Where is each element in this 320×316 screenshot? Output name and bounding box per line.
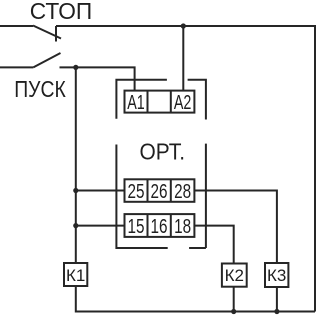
wire: left feed to ПУСК contact (0, 66, 33, 68)
wire: lead down to terminal A2 (182, 26, 184, 91)
wire: vertical branch down to К1 coil (75, 67, 77, 263)
switch СТОП stop bar (55, 26, 57, 42)
wire: ПУСК output to terminal A1 (60, 67, 135, 90)
node: junction of A2 branch on top rail (181, 23, 186, 28)
terminal row A1/A2 of relay ОРТ (125, 91, 195, 114)
svg-text:15: 15 (128, 216, 145, 238)
svg-text:К1: К1 (66, 266, 85, 285)
wire: right rail (314, 25, 316, 312)
node: junction of terminal 15 wire (73, 223, 78, 228)
wire: terminal 15 to К1 branch (76, 225, 125, 227)
svg-text:К2: К2 (225, 266, 244, 285)
svg-text:ПУСК: ПУСК (14, 76, 66, 102)
svg-text:К3: К3 (267, 266, 286, 285)
wire: terminal 25 to К1 branch (76, 190, 125, 192)
switch ПУСК (NO contact) blade (33, 53, 60, 67)
terminal row 25/26/28 of relay ОРТ (125, 179, 195, 203)
svg-text:ОРТ.: ОРТ. (140, 139, 186, 165)
switch СТОП (NC contact) blade (33, 26, 61, 39)
node: junction К2 on bottom rail (231, 309, 236, 314)
node: junction К3 on bottom rail (274, 309, 279, 314)
svg-text:25: 25 (128, 181, 145, 203)
svg-text:A1: A1 (127, 92, 145, 114)
wire: top rail from СТОП to right corner (56, 25, 315, 27)
coil К2 (222, 264, 247, 287)
wire: К1 coil to bottom rail (76, 286, 315, 312)
node: junction of К1 branch on ПУСК wire (73, 65, 78, 70)
coil К3 (265, 263, 288, 287)
wire: terminal 28 to К3 coil (194, 191, 277, 264)
wire: К3 coil to bottom rail (276, 287, 278, 312)
svg-text:28: 28 (174, 181, 191, 203)
wire: left feed to СТОП contact (0, 25, 33, 27)
relay ОРТ device outline (dashed boundary) (115, 79, 205, 248)
terminal row 15/16/18 of relay ОРТ (125, 214, 195, 238)
node: junction of terminal 25 wire (73, 188, 78, 193)
svg-text:18: 18 (174, 216, 191, 238)
svg-text:26: 26 (151, 181, 168, 203)
svg-text:16: 16 (151, 216, 168, 238)
wire: terminal 18 to К2 coil (194, 226, 233, 264)
svg-text:СТОП: СТОП (30, 0, 93, 24)
coil К1 (64, 263, 87, 286)
svg-text:A2: A2 (174, 92, 192, 114)
wire: К2 coil to bottom rail (233, 287, 235, 312)
